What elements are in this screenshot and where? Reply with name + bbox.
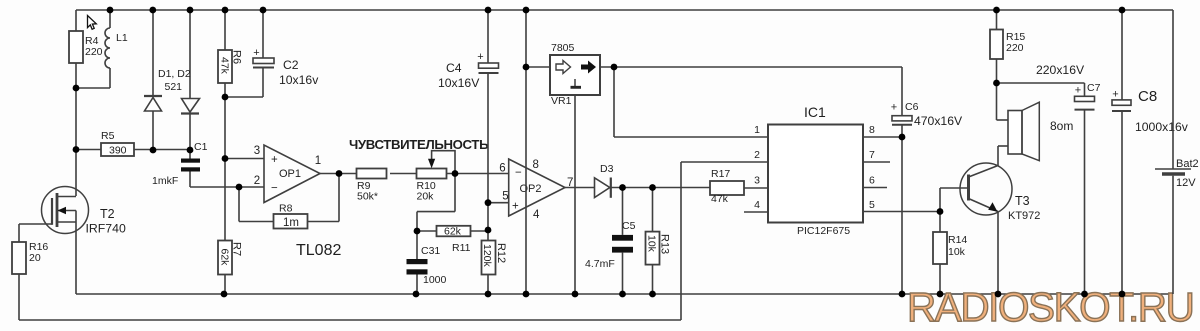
- svg-text:+: +: [1112, 89, 1118, 101]
- svg-text:62k: 62k: [444, 226, 462, 238]
- svg-text:C8: C8: [1138, 88, 1157, 105]
- svg-text:R13: R13: [659, 234, 671, 254]
- svg-text:VR1: VR1: [551, 95, 572, 107]
- svg-text:1000: 1000: [423, 274, 447, 286]
- svg-text:1: 1: [315, 155, 321, 167]
- svg-text:R7: R7: [231, 242, 243, 256]
- svg-text:+: +: [512, 201, 519, 213]
- svg-text:C5: C5: [622, 220, 636, 232]
- svg-text:C1: C1: [194, 141, 208, 153]
- svg-text:IRF740: IRF740: [86, 222, 126, 236]
- svg-text:IC1: IC1: [804, 104, 826, 120]
- svg-text:220: 220: [1006, 42, 1024, 54]
- svg-text:10k: 10k: [948, 246, 966, 258]
- svg-text:2: 2: [754, 149, 760, 161]
- svg-text:4: 4: [754, 199, 760, 211]
- svg-text:ЧУВСТВИТЕЛЬНОСТЬ: ЧУВСТВИТЕЛЬНОСТЬ: [349, 137, 489, 152]
- svg-text:OP2: OP2: [520, 183, 542, 195]
- svg-text:C7: C7: [1087, 82, 1101, 94]
- svg-text:R5: R5: [101, 130, 115, 142]
- svg-text:521: 521: [165, 81, 183, 93]
- svg-text:C4: C4: [446, 61, 462, 75]
- svg-text:220: 220: [85, 46, 103, 58]
- svg-text:5: 5: [869, 199, 875, 211]
- svg-text:−: −: [271, 183, 278, 195]
- svg-text:6: 6: [869, 175, 875, 187]
- svg-text:R17: R17: [711, 168, 730, 180]
- svg-text:R8: R8: [279, 203, 293, 215]
- svg-text:+: +: [271, 154, 278, 166]
- svg-text:R6: R6: [231, 50, 243, 64]
- svg-text:C2: C2: [283, 58, 299, 72]
- svg-text:+: +: [891, 102, 897, 114]
- svg-text:10k: 10k: [646, 235, 658, 253]
- svg-text:6: 6: [499, 163, 505, 175]
- svg-text:Bat2: Bat2: [1176, 158, 1199, 170]
- svg-text:1mkF: 1mkF: [152, 175, 178, 187]
- svg-text:47k: 47k: [711, 193, 729, 205]
- svg-text:RADIOSKOT.RU: RADIOSKOT.RU: [907, 284, 1193, 330]
- svg-text:4: 4: [533, 209, 540, 221]
- svg-text:D3: D3: [600, 163, 614, 175]
- svg-text:5: 5: [502, 191, 508, 203]
- svg-text:R12: R12: [495, 243, 507, 263]
- svg-text:−: −: [515, 167, 522, 179]
- svg-text:50k*: 50k*: [357, 191, 378, 203]
- svg-text:D1, D2: D1, D2: [158, 68, 191, 80]
- svg-text:470x16V: 470x16V: [914, 114, 963, 128]
- svg-text:1000x16v: 1000x16v: [1135, 120, 1189, 134]
- svg-text:12V: 12V: [1176, 177, 1196, 189]
- svg-text:T2: T2: [100, 207, 115, 221]
- svg-text:+: +: [477, 51, 483, 63]
- svg-text:47k: 47k: [219, 57, 231, 75]
- svg-text:T3: T3: [1015, 194, 1030, 208]
- svg-text:C6: C6: [905, 101, 919, 113]
- svg-text:PIC12F675: PIC12F675: [797, 225, 850, 237]
- svg-text:390: 390: [109, 145, 127, 157]
- svg-text:L1: L1: [116, 32, 128, 44]
- svg-text:4.7mF: 4.7mF: [585, 258, 615, 270]
- svg-text:10x16v: 10x16v: [279, 73, 319, 87]
- svg-text:3: 3: [254, 145, 260, 157]
- svg-text:62k: 62k: [219, 249, 231, 267]
- svg-text:TL082: TL082: [296, 242, 341, 259]
- svg-text:7805: 7805: [551, 42, 575, 54]
- svg-text:R14: R14: [948, 234, 967, 246]
- svg-text:+: +: [253, 47, 259, 59]
- svg-text:220x16V: 220x16V: [1036, 63, 1085, 77]
- svg-text:8om: 8om: [1050, 119, 1073, 133]
- svg-text:8: 8: [869, 124, 875, 136]
- svg-text:10x16V: 10x16V: [438, 76, 480, 90]
- svg-text:3: 3: [754, 175, 760, 187]
- svg-text:2: 2: [254, 175, 260, 187]
- svg-text:120k: 120k: [481, 244, 493, 268]
- svg-text:KT972: KT972: [1008, 210, 1040, 222]
- svg-text:+: +: [1075, 85, 1081, 97]
- svg-text:C31: C31: [421, 245, 440, 257]
- svg-text:R11: R11: [452, 242, 471, 254]
- svg-text:OP1: OP1: [279, 168, 301, 180]
- svg-text:20: 20: [29, 252, 41, 264]
- svg-text:20k: 20k: [417, 191, 435, 203]
- svg-text:1: 1: [754, 124, 760, 136]
- svg-text:8: 8: [533, 159, 539, 171]
- svg-text:7: 7: [869, 149, 875, 161]
- svg-text:1m: 1m: [283, 217, 299, 229]
